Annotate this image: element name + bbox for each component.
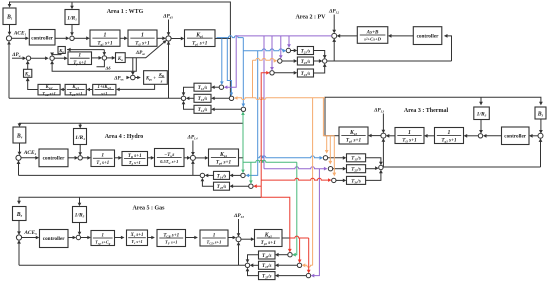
- summing junction governor A3: [478, 134, 482, 138]
- wire 1/R5 drop: [79, 197, 81, 205]
- summing junction tie5 I: [297, 263, 301, 267]
- wire T24 into 2d: [314, 65, 325, 73]
- svg-text:ACE5: ACE5: [23, 230, 37, 236]
- wire PV block to M2: [339, 35, 358, 37]
- controller block Area5: [40, 230, 69, 248]
- svg-text:1: 1: [101, 153, 104, 159]
- block 1/(Tg1 s+1): [90, 30, 120, 46]
- wire 1/R1 into governor sum: [71, 25, 73, 34]
- summing junction governor A4: [78, 156, 82, 160]
- wire tie4 up into ACE4: [18, 162, 20, 175]
- block 1/R3: [474, 107, 490, 120]
- summing junction ACE1: [6, 36, 11, 41]
- wire gas b4 to M5: [228, 237, 234, 239]
- summing junction tie4 E: [241, 173, 245, 177]
- svg-text:Tsg s+Cg: Tsg s+Cg: [95, 239, 110, 245]
- wire T32 into D: [366, 168, 377, 170]
- wire tap from Ka line down into sum4: [132, 57, 134, 73]
- summing junction sum3 row2: [102, 56, 106, 60]
- controller block Area2: [413, 27, 442, 45]
- wire Kp box down into sum2: [52, 53, 61, 54]
- wire Kp1 output to feedback riser: [215, 38, 231, 40]
- wire orange drop to area5 I: [312, 98, 314, 266]
- summing junction tie5 collector K: [245, 263, 249, 267]
- wire T31 into D: [366, 158, 381, 164]
- block 1/(Tg3 s+1): [435, 128, 464, 144]
- wire R2 to T13: [213, 97, 229, 99]
- summing junction M1: [166, 36, 171, 41]
- wire T21 into 2d: [314, 51, 325, 57]
- wire Tp to sum3: [92, 57, 101, 59]
- wire ACE3 to controller3: [531, 135, 538, 137]
- wire M4 to Kp4: [195, 157, 206, 159]
- wire M1 to Kp1: [171, 38, 183, 40]
- block gas TCD: [200, 230, 228, 246]
- svg-text:T21/s: T21/s: [301, 49, 311, 54]
- block T14/s area4: [214, 171, 230, 179]
- wire dPL2 drop: [333, 15, 335, 32]
- wire M5 to Kp5: [241, 238, 253, 240]
- wire governor sum to Tg1 block: [74, 37, 88, 39]
- wire 1/R1 drop from top wire: [71, 2, 73, 8]
- wire red df5 riser and run: [261, 73, 290, 238]
- wire R1 to T12: [213, 86, 219, 88]
- wire C to T34: [336, 179, 345, 181]
- svg-text:T14/s: T14/s: [198, 108, 208, 113]
- wire 2b to T23: [282, 60, 295, 62]
- block gas Xc/Yc: [127, 230, 148, 246]
- wire dPd1 drop: [168, 20, 170, 34]
- wire ACE1 to controller: [11, 37, 27, 39]
- svg-text:TCD s+1: TCD s+1: [207, 240, 222, 246]
- controller block Area3: [502, 127, 530, 145]
- wire Area2 feedback right loop: [446, 36, 452, 61]
- block B4: [13, 127, 26, 143]
- wire Kp5 output to red riser: [282, 237, 290, 239]
- svg-text:As+B: As+B: [366, 29, 379, 35]
- svg-text:T23/s: T23/s: [301, 60, 311, 65]
- wire controller3 to governor sum3: [485, 135, 502, 137]
- wire 1/R4 into gov sum4: [79, 145, 81, 154]
- wire Tg3 to Tt3: [426, 135, 435, 137]
- svg-text:controller: controller: [417, 34, 439, 40]
- svg-text:Tp5 s+1: Tp5 s+1: [261, 240, 277, 246]
- wire Area1 frequency feedback top: [10, 2, 231, 39]
- svg-text:Tt1 s+1: Tt1 s+1: [135, 40, 150, 46]
- block T45/s area5: [259, 251, 276, 259]
- block T14/s: [194, 105, 211, 113]
- block B5: [13, 207, 27, 221]
- wire dPL4 drop: [192, 141, 194, 154]
- wire blue df1 branch to R1: [221, 39, 223, 84]
- wire F to T45: [232, 185, 249, 187]
- svg-text:T25/s: T25/s: [262, 275, 272, 280]
- wire tie-line feedback up into ACE1: [8, 43, 10, 99]
- wire red out to I and J drops: [290, 236, 309, 238]
- wire gas b2 to b3: [148, 237, 153, 239]
- wire controller2 to PV block: [390, 35, 414, 37]
- svg-text:Xc s+1: Xc s+1: [130, 233, 144, 238]
- wire hydro b1 to b2: [115, 157, 120, 159]
- svg-text:ΔPw: ΔPw: [11, 52, 21, 58]
- svg-text:s+1: s+1: [100, 91, 107, 96]
- block 1/R5: [73, 207, 87, 223]
- wire orange df3 main run left: [236, 98, 325, 100]
- svg-text:1/R1: 1/R1: [67, 15, 77, 21]
- svg-text:1+sKw2: 1+sKw2: [98, 85, 112, 90]
- svg-text:1: 1: [408, 130, 411, 136]
- svg-text:T1 s+1: T1 s+1: [96, 161, 109, 166]
- summing junction tie3 B: [328, 167, 332, 171]
- wire T12 into collector: [184, 87, 195, 94]
- wire green drop to F: [250, 162, 252, 182]
- svg-text:Kpc +: Kpc +: [145, 77, 156, 82]
- block PV transfer As+B: [357, 27, 388, 44]
- summing junction sum4 pitch: [131, 75, 136, 80]
- wire dPL5 drop: [238, 219, 240, 235]
- wire 1/R5 into gov sum5: [79, 223, 81, 234]
- svg-text:1: 1: [104, 32, 107, 38]
- svg-text:Tp3 s+1: Tp3 s+1: [346, 138, 362, 144]
- svg-text:TF s+1: TF s+1: [165, 240, 178, 246]
- wire Tt3 to M3: [388, 135, 395, 137]
- svg-text:Kp: Kp: [58, 48, 64, 54]
- block Kp5/(Tp5 s+1): [255, 230, 283, 247]
- wire green drop to E: [242, 158, 244, 172]
- wire purple drop to 2b: [280, 36, 282, 57]
- wire T34 into D: [366, 172, 381, 181]
- wire 2c to T24: [274, 72, 295, 74]
- block 1/R1: [65, 10, 79, 25]
- block Kw2/(Tw2 s+1): [38, 84, 60, 95]
- svg-text:Kw: Kw: [24, 72, 31, 77]
- block T23/s area3: [347, 165, 366, 173]
- wire tie riser into M1 bottom: [168, 43, 170, 98]
- wire blue df1 branch to R3 2a and long run: [217, 36, 244, 38]
- wire J to T25: [277, 275, 306, 277]
- svg-text:Tg3 s+1: Tg3 s+1: [441, 138, 457, 144]
- wire controller to governor sum: [55, 37, 67, 39]
- wire red branch to area3 C: [261, 178, 330, 180]
- svg-text:Tp1 s+1: Tp1 s+1: [192, 40, 208, 46]
- wire feedback into sum2 bottom: [52, 58, 136, 71]
- block 1/(Tt3 s+1): [395, 128, 424, 144]
- wire M3 to Kp3: [370, 135, 381, 137]
- wire gas b1 to b2: [115, 237, 123, 239]
- summing junction governor A1: [70, 36, 74, 40]
- wire red branch to F: [255, 185, 261, 187]
- wire hydro b2 to b3: [148, 157, 153, 159]
- svg-text:Δδ: Δδ: [104, 66, 111, 71]
- wire tie3 riser into M3: [382, 140, 384, 167]
- svg-text:1: 1: [213, 232, 216, 238]
- wire riser lower segment to tie return: [229, 39, 231, 99]
- wire tie5 up into ACE5: [18, 242, 20, 265]
- wire B5 to ACE5: [18, 221, 20, 234]
- wire green run right: [243, 160, 297, 162]
- wire T25 into K: [248, 270, 259, 276]
- svg-text:B3: B3: [537, 111, 544, 117]
- svg-text:B1: B1: [6, 15, 13, 21]
- svg-text:Kw1: Kw1: [71, 85, 79, 90]
- svg-text:T45/s: T45/s: [217, 185, 227, 190]
- wire Tt1 to main sum M1: [157, 37, 164, 39]
- block (TRs+1)/(T2s+1): [122, 152, 148, 166]
- block pitch lag: [93, 84, 116, 95]
- summing junction M4: [190, 155, 195, 160]
- wire purple drop to 2a: [288, 36, 290, 46]
- wire B to T32: [333, 168, 345, 170]
- svg-text:TR s+1: TR s+1: [128, 153, 142, 159]
- block T13/s: [194, 94, 211, 102]
- block T13/s area3: [347, 154, 366, 162]
- block Kpc+KR/s: [144, 71, 168, 85]
- svg-text:T13/s: T13/s: [351, 157, 361, 162]
- block B3: [535, 107, 546, 119]
- wire blue df1 branch to R2: [227, 39, 231, 95]
- svg-text:T24/s: T24/s: [301, 72, 311, 77]
- block T34/s area3: [347, 176, 366, 184]
- svg-text:1/R4: 1/R4: [75, 135, 85, 141]
- wire tie3 return to ACE3: [383, 166, 540, 168]
- summing junction wind input: [26, 56, 30, 60]
- summing junction tie3 A: [323, 156, 327, 160]
- wire dPwc arrow: [127, 77, 129, 79]
- wire row3 c to b: [88, 89, 92, 91]
- wire gov4 to T1 block: [82, 157, 89, 159]
- summing junction tie1 R3: [241, 107, 245, 111]
- wire T41 into G: [207, 174, 214, 176]
- wire 2a to T21: [291, 50, 296, 52]
- wire row3 b to a: [62, 89, 65, 91]
- wire row3 a up to Kw: [28, 79, 38, 89]
- summing junction tie2 2c: [270, 71, 274, 75]
- wire gas b3 to b4: [186, 237, 196, 239]
- wire T54 into K: [248, 255, 259, 261]
- block T24/s: [297, 69, 313, 77]
- svg-text:T13/s: T13/s: [198, 97, 208, 102]
- wire Area5 frequency feedback top: [19, 197, 261, 202]
- svg-text:Tg1 s+1: Tg1 s+1: [97, 40, 113, 46]
- svg-text:Area 2 : PV: Area 2 : PV: [295, 14, 326, 20]
- wire sum3 to Ka: [107, 57, 114, 59]
- wire pitch block down to row3: [118, 84, 155, 89]
- svg-text:s: s: [160, 78, 163, 83]
- wire tie5 return to ACE5: [19, 264, 245, 266]
- svg-text:ΔPL4: ΔPL4: [186, 135, 198, 141]
- summing junction tie3 C: [332, 178, 336, 182]
- svg-text:Tw1 s+1: Tw1 s+1: [69, 91, 82, 97]
- svg-text:ΔPL3: ΔPL3: [373, 108, 385, 114]
- wire ACE4 to controller4: [21, 157, 37, 159]
- wire Ka output: [125, 57, 146, 59]
- wire sum4 to Kp+KR/s block: [135, 77, 139, 79]
- svg-text:Kw2: Kw2: [45, 85, 53, 90]
- svg-text:T45/s: T45/s: [262, 254, 272, 259]
- svg-text:ΔPwc: ΔPwc: [113, 75, 124, 81]
- svg-text:Area 4 : Hydro: Area 4 : Hydro: [105, 134, 144, 140]
- svg-text:B5: B5: [16, 212, 23, 218]
- block 1/(T1 s+1): [91, 150, 115, 167]
- block Kp4/(Tp4 s+1): [209, 149, 239, 166]
- block 1/(Tt1 s+1): [128, 30, 157, 46]
- summing junction ACE5: [16, 235, 21, 240]
- wire T14 into collector: [184, 103, 195, 110]
- wire green df4 riser to R3: [242, 113, 244, 158]
- svg-text:−Tws: −Tws: [164, 152, 174, 158]
- svg-text:T14/s: T14/s: [217, 174, 227, 179]
- block T45/s area4: [214, 182, 230, 190]
- wire Kp4 output to green riser: [239, 157, 244, 159]
- wire sum2 to Tp block: [54, 57, 65, 59]
- svg-text:0.5Tw s+1: 0.5Tw s+1: [160, 159, 178, 165]
- svg-text:1/R3: 1/R3: [477, 111, 487, 117]
- wire tie4 riser into M4: [192, 162, 194, 175]
- wire into Kp box from right: [67, 49, 104, 51]
- svg-text:1: 1: [102, 233, 104, 238]
- block gas valve: [91, 231, 115, 246]
- summing junction sum2 row2: [50, 56, 54, 60]
- summing junction M5: [236, 237, 241, 242]
- svg-text:Kp3: Kp3: [349, 130, 357, 136]
- summing junction tie5 H: [288, 253, 292, 257]
- block Kw1/(Tw1 s+1): [65, 84, 86, 95]
- wire B3 down to ACE3: [540, 119, 542, 132]
- svg-text:Tp4 s+1: Tp4 s+1: [216, 160, 232, 166]
- summing junction ACE4: [16, 155, 21, 160]
- svg-text:s2+Cs+D: s2+Cs+D: [363, 37, 381, 42]
- summing junction tie4 collector G: [200, 173, 204, 177]
- svg-text:Area 5 : Gas: Area 5 : Gas: [132, 205, 165, 211]
- wire diagonal dPac into M1: [146, 41, 165, 58]
- wire 1/R3 into governor sum3: [480, 120, 482, 132]
- wire 1/R4 drop: [79, 123, 81, 126]
- wire orange drop to area3 A B C: [323, 98, 334, 136]
- wire A to T31: [328, 157, 345, 159]
- svg-text:1/R5: 1/R5: [75, 213, 85, 219]
- wire controller4 to governor sum4: [68, 157, 76, 159]
- svg-text:T15/s: T15/s: [262, 264, 272, 269]
- wire B1 to ACE1 sum: [9, 25, 11, 34]
- svg-text:Kp5: Kp5: [264, 232, 272, 238]
- block Kp3/(Tp3 s+1): [339, 127, 368, 144]
- wire 1/R3 drop: [480, 97, 482, 103]
- block 1/(Tp s+1): [68, 52, 92, 65]
- block Kp1/(Tp1 s+1): [185, 30, 216, 47]
- svg-text:Area 1 : WTG: Area 1 : WTG: [107, 9, 144, 15]
- wire Area4 frequency feedback top: [20, 123, 244, 158]
- block T23/s: [297, 57, 313, 65]
- svg-text:controller: controller: [504, 134, 526, 140]
- svg-text:KR: KR: [158, 72, 164, 78]
- wire tie3 up into ACE3: [540, 140, 542, 167]
- wire Area3 frequency feedback top: [325, 97, 541, 136]
- wire ACE5 to controller5: [21, 237, 37, 239]
- summing junction tie3 collector D: [379, 165, 383, 169]
- svg-text:ACE4: ACE4: [23, 150, 37, 156]
- wire dPL3 drop: [382, 114, 384, 132]
- wire corner down into sum3 top: [103, 50, 105, 55]
- svg-text:T23/s: T23/s: [351, 168, 361, 173]
- summing junction tie2 2a: [286, 48, 290, 52]
- wire tie1 return to ACE1: [9, 97, 181, 99]
- svg-text:Yc s+1: Yc s+1: [131, 239, 142, 245]
- wire purple drop to 2c: [271, 36, 273, 69]
- wire T23 into 2d: [314, 60, 321, 62]
- svg-text:T2 s+1: T2 s+1: [129, 160, 141, 166]
- wire tie4 return to ACE4: [19, 174, 201, 176]
- svg-text:Kp1: Kp1: [195, 32, 203, 38]
- wire B4 to ACE4: [19, 143, 21, 153]
- wire T45 into G: [202, 180, 213, 187]
- summing junction ACE3: [538, 133, 543, 138]
- block T12/s: [194, 83, 211, 91]
- block T25/s area5: [259, 272, 276, 280]
- block T15/s area5: [259, 261, 276, 269]
- svg-text:controller: controller: [43, 236, 65, 242]
- label d-delta bracket: [97, 60, 105, 67]
- svg-text:1: 1: [141, 32, 144, 38]
- block T21/s: [297, 47, 313, 55]
- summing junction tie2 2b: [278, 59, 282, 63]
- wire gov sum3 to Tg3: [466, 135, 479, 137]
- svg-text:ΔPac: ΔPac: [135, 50, 146, 56]
- wire orange riser to 2b: [252, 60, 254, 97]
- wire blue df1 long branch to area3 A and area4 E: [247, 51, 257, 176]
- svg-text:Ka: Ka: [117, 57, 123, 62]
- wire purple df2 main run: [226, 36, 332, 87]
- wire I to T15: [277, 264, 297, 266]
- svg-text:controller: controller: [43, 156, 65, 162]
- summing junction tie4 F: [249, 184, 253, 188]
- block hydro water: [155, 149, 185, 167]
- summing junction tie1 R2: [229, 96, 233, 100]
- block Ka: [116, 53, 126, 63]
- summing junction tie1 collector: [181, 96, 185, 100]
- controller block Area4: [39, 149, 68, 167]
- svg-text:Tw2 s+1: Tw2 s+1: [42, 91, 55, 97]
- controller block Area1: [29, 30, 55, 46]
- wire red drop to H: [289, 238, 291, 251]
- wire Kw up into wind sum: [27, 62, 29, 69]
- svg-text:ΔPL5: ΔPL5: [233, 213, 245, 219]
- block 1/R4: [74, 129, 87, 145]
- svg-text:ACE1: ACE1: [13, 31, 27, 37]
- svg-text:1: 1: [78, 53, 81, 59]
- svg-text:TCR s+1: TCR s+1: [163, 232, 179, 238]
- svg-text:ΔPL2: ΔPL2: [328, 9, 340, 15]
- svg-text:Kp4: Kp4: [219, 152, 227, 158]
- wire R3 to T14: [213, 108, 241, 110]
- svg-text:T12/s: T12/s: [198, 86, 208, 91]
- wire tie5 riser into M5: [238, 244, 240, 266]
- block gas TCR/TF: [157, 230, 186, 247]
- block Kp small: [58, 47, 65, 54]
- summing junction governor A5: [76, 235, 80, 239]
- wire T15 into K: [252, 264, 259, 266]
- wire hydro b3 to M4: [184, 157, 189, 159]
- wire Kp3 output left to riser: [325, 135, 340, 137]
- wire tie2 output to feedback and up to M2: [327, 60, 452, 62]
- wire Tg1 to Tt1: [120, 37, 126, 39]
- svg-text:ΔPd1: ΔPd1: [162, 14, 173, 20]
- summing junction tie5 J: [306, 273, 310, 277]
- block B1: [3, 8, 16, 25]
- wire purple long drop to area3 B: [263, 36, 265, 169]
- svg-text:controller: controller: [31, 36, 53, 42]
- wire controller5 to gov sum5: [68, 237, 74, 239]
- wire T13 into collector: [188, 97, 194, 99]
